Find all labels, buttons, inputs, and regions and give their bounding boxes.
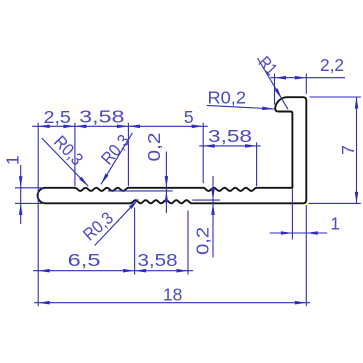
dimension 3,58 top — [75, 107, 128, 129]
svg-text:R1: R1 — [255, 52, 282, 79]
dimension 2,5 — [32, 107, 208, 128]
leader R0,3 second (top knurl radius) — [97, 130, 134, 185]
extension line at left end x=38.2 — [37, 123, 39, 306]
dimension 6,5 — [33, 250, 193, 273]
extension line x=256.6 (top knurl 2 end) — [256, 142, 258, 186]
svg-text:R0,3: R0,3 — [79, 208, 117, 245]
svg-text:1: 1 — [330, 214, 340, 234]
extension line x=188 (bottom knurl end) — [187, 211, 189, 275]
leader R0,3 first (top knurl radius) — [42, 131, 90, 187]
svg-text:0,2: 0,2 — [192, 227, 212, 255]
extension line y=97 right (leg top) — [310, 96, 361, 98]
dimension 18 — [34, 285, 310, 305]
dimension 0,2 top knurl depth — [144, 133, 168, 214]
dimension 1 bottom right (leg thickness) — [270, 214, 341, 235]
dimension 1 left (bar thickness) — [3, 155, 23, 224]
dimension 3,58 upper right — [199, 126, 260, 148]
svg-text:R0,3: R0,3 — [50, 131, 87, 169]
svg-text:2,2: 2,2 — [320, 55, 344, 75]
dimension 5 — [128, 107, 203, 128]
extension line y=187.5 left (bar top) — [15, 187, 44, 189]
extension line y=203 right (bar bottom) — [309, 202, 361, 204]
svg-text:7: 7 — [338, 145, 358, 155]
extension line x=306.3 upper (head right) — [305, 74, 307, 95]
extension line x=203.2 (shared 5 / 3,58) — [202, 123, 204, 183]
profile outline (L-trim section) — [38, 97, 307, 203]
dimension 0,2 bottom knurl depth — [192, 176, 215, 257]
svg-text:6,5: 6,5 — [68, 250, 101, 270]
extension line x=306.3 lower (right edge) — [305, 205, 307, 306]
svg-text:3,58: 3,58 — [138, 250, 178, 270]
svg-text:2,5: 2,5 — [44, 107, 71, 127]
extension line x=134.6 (bottom knurl start) — [134, 208, 136, 275]
reference line top knurl root — [108, 190, 173, 192]
dimension 2,2 — [271, 55, 346, 80]
svg-text:18: 18 — [163, 285, 182, 305]
extension line x=74.9 (top knurl start) — [74, 123, 76, 186]
leader R0,2 (head fillet radius) — [207, 88, 274, 111]
svg-text:0,2: 0,2 — [144, 133, 164, 162]
reference line bottom knurl crest — [192, 199, 220, 201]
dimension 7 — [338, 97, 359, 203]
dimension 3,58 bottom — [135, 250, 188, 273]
svg-text:5: 5 — [184, 107, 194, 127]
svg-text:3,58: 3,58 — [79, 107, 124, 127]
extension line x=292.4 (leg left) — [291, 189, 293, 240]
extension line x=128.4 (top knurl end) — [127, 123, 129, 186]
svg-text:3,58: 3,58 — [208, 126, 252, 146]
leader R0,3 third (bottom knurl radius) — [79, 198, 139, 245]
svg-text:R0,2: R0,2 — [208, 88, 247, 108]
svg-text:1: 1 — [3, 155, 23, 165]
extension line x=274.5 (head left) — [274, 74, 276, 105]
extension line y=203 left (bar bottom) — [15, 202, 44, 204]
leader R1 (head top radius) — [255, 52, 288, 109]
